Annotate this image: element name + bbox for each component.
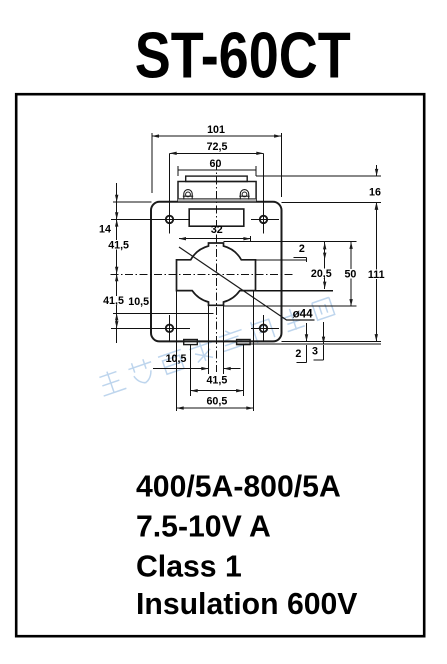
left ext lines bbox=[111, 202, 214, 328]
dim label 41,5 upper-left bbox=[105, 239, 131, 251]
arrowheads bbox=[115, 134, 378, 409]
spec text block bbox=[136, 471, 357, 622]
dimension text labels bbox=[99, 124, 385, 408]
svg-text:ø44: ø44 bbox=[293, 308, 314, 321]
aperture window (circle + slots) bbox=[177, 243, 256, 305]
svg-text:7.5-10V A: 7.5-10V A bbox=[136, 511, 271, 544]
svg-text:50: 50 bbox=[344, 268, 356, 280]
border frame of drawing box bbox=[16, 94, 424, 636]
leader line to Ø44 bbox=[179, 247, 315, 320]
dim label 50 bbox=[343, 268, 358, 280]
bottom foot-center ext lines bbox=[191, 345, 244, 396]
dim 32 line and ext bbox=[179, 236, 251, 242]
svg-text:ST-60CT: ST-60CT bbox=[135, 20, 351, 92]
svg-text:41,5: 41,5 bbox=[206, 375, 227, 387]
nameplate rectangle bbox=[189, 209, 244, 226]
dim 41.5 bottom line bbox=[191, 390, 244, 392]
svg-text:Insulation 600V: Insulation 600V bbox=[136, 588, 357, 621]
svg-text:41,5: 41,5 bbox=[103, 295, 124, 307]
svg-text:14: 14 bbox=[99, 223, 111, 235]
svg-text:111: 111 bbox=[368, 269, 385, 281]
dim 72.5 line bbox=[170, 152, 264, 154]
mounting hole bottom-right bbox=[260, 325, 267, 332]
svg-text:101: 101 bbox=[207, 124, 225, 136]
svg-text:400/5A-800/5A: 400/5A-800/5A bbox=[136, 471, 341, 504]
mounting hole top-left bbox=[166, 216, 173, 223]
dim 3 bottom leader bbox=[314, 322, 324, 360]
dim 2 bottom leader bbox=[297, 323, 307, 363]
mounting foot right bbox=[237, 340, 251, 345]
dim 2 top-right bent extension bbox=[293, 257, 306, 262]
dim 10.5 bottom line bbox=[153, 368, 241, 370]
hole crosshair arms bottom-right bbox=[251, 315, 279, 341]
bottom 60.5 ext lines bbox=[177, 291, 254, 411]
mounting hole top-right bbox=[260, 216, 267, 223]
svg-text:10,5: 10,5 bbox=[166, 353, 187, 365]
hole crosshair arm / ext line 72.5 top-left bbox=[169, 153, 171, 233]
svg-text:2: 2 bbox=[295, 348, 301, 360]
watermark (light blue diagonal logo text) bbox=[97, 295, 336, 397]
terminal block bbox=[178, 182, 256, 202]
hole crosshair arms top-right bbox=[251, 153, 279, 233]
svg-text:41,5: 41,5 bbox=[108, 239, 129, 251]
hole crosshair arm bottom-left vertical bbox=[169, 315, 171, 341]
terminal block top lip bbox=[186, 176, 248, 181]
svg-text:32: 32 bbox=[211, 224, 223, 236]
dim 111 line bbox=[375, 203, 377, 342]
dim label 20,5 bbox=[309, 268, 334, 280]
dim label 111 bbox=[368, 269, 385, 281]
right ext lines top bbox=[256, 176, 381, 202]
svg-text:60: 60 bbox=[210, 158, 222, 170]
svg-text:16: 16 bbox=[369, 187, 381, 199]
terminal base gray band bbox=[178, 199, 256, 201]
svg-text:3: 3 bbox=[312, 346, 318, 358]
svg-text:60,5: 60,5 bbox=[206, 396, 227, 408]
svg-text:20,5: 20,5 bbox=[311, 268, 332, 280]
bottom tab ext lines bbox=[209, 305, 224, 374]
right ext lines bottom bbox=[237, 341, 381, 343]
screw terminal left bbox=[183, 190, 193, 200]
dim label 32 bbox=[207, 224, 227, 236]
centerline vertical bbox=[216, 162, 218, 372]
mounting foot left bbox=[184, 340, 198, 345]
dim 101 line and extensions bbox=[152, 133, 281, 197]
dim 50 line and exts bbox=[224, 242, 357, 307]
svg-text:72,5: 72,5 bbox=[207, 141, 228, 153]
CT body outline bbox=[151, 202, 282, 342]
dim 20.5 line and exts bbox=[256, 242, 325, 289]
dim 16 line segments bbox=[376, 165, 378, 214]
screw terminal right bbox=[239, 190, 249, 200]
dim 60 line and end ticks bbox=[178, 166, 256, 176]
svg-text:2: 2 bbox=[299, 243, 305, 255]
mounting hole bottom-left bbox=[166, 325, 173, 332]
svg-text:10,5: 10,5 bbox=[128, 296, 149, 308]
centerline horizontal bbox=[110, 274, 293, 276]
dim 60.5 bottom line bbox=[177, 407, 254, 409]
dim label 41,5 lower-left bbox=[100, 295, 126, 307]
svg-text:Class 1: Class 1 bbox=[136, 551, 242, 584]
left dimension column line bbox=[116, 183, 118, 343]
